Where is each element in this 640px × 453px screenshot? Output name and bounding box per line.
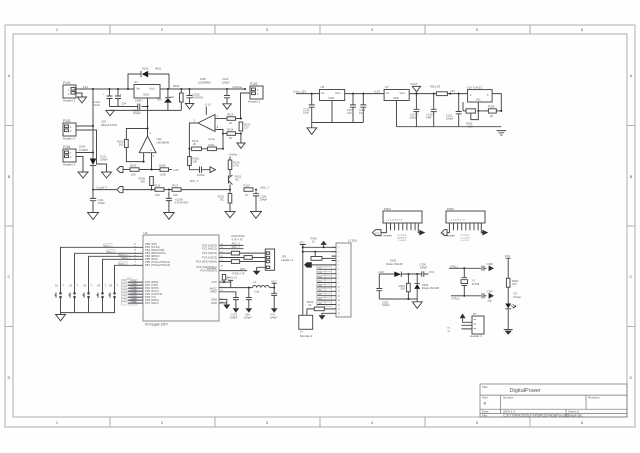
svg-text:-: - [211,117,212,121]
wire ADJ vertical [147,98,149,136]
svg-text:4.7K: 4.7K [233,163,239,167]
ground mcu filled [223,305,230,310]
wire plus input down [151,153,153,170]
diode D303 up [414,273,439,299]
svg-text:AREF: AREF [210,290,218,294]
wire backup bottom rail [379,298,417,300]
svg-text:100K: 100K [160,173,166,177]
button S4 [97,259,144,302]
svg-text:Header 2: Header 2 [248,100,261,104]
capacitor C123 from AREF [230,292,239,320]
button S5 [109,265,144,302]
svg-text:KEY4: KEY4 [122,258,128,260]
wire LCD row2 [302,251,336,253]
svg-text:47uF/50V: 47uF/50V [192,95,204,99]
header P301 pin wires [381,223,419,233]
svg-text:Vin: Vin [386,91,390,95]
LED D2 [505,304,516,309]
svg-text:VCC: VCC [211,280,217,284]
svg-text:104pF: 104pF [230,315,238,319]
svg-text:2 3 4 5 6: 2 3 4 5 6 [398,240,407,242]
LCD data stub wires [317,267,332,307]
net XTAL1 wire [449,265,464,269]
svg-text:GND: GND [393,96,399,100]
buttons ground bus [61,302,115,312]
svg-text:10K: 10K [155,193,160,197]
svg-text:10uF: 10uF [94,103,100,107]
wire rail VIN [80,88,134,90]
capacitor C111 bottom [87,191,105,220]
capacitor C305 on rail [420,262,428,276]
connector P103 top right [248,82,263,104]
wire U2B minus input [215,118,227,120]
regulator U5 [320,85,345,101]
header P302 pin wires [447,223,482,233]
wire PC2 to header [219,252,265,254]
svg-text:4.7K 4.7K: 4.7K 4.7K [232,237,244,241]
svg-text:Vout: Vout [335,91,340,95]
LCD16 connector [332,239,358,318]
svg-text:104pF: 104pF [270,315,278,319]
svg-text:+5VAna: +5VAna [232,85,242,89]
resistor R305 [231,260,239,264]
resistor R403 [307,300,332,315]
junction cutoff row [151,189,153,191]
resistor R116 [154,184,172,198]
svg-text:INT0: INT0 [132,287,138,289]
svg-text:Diode 1N4148: Diode 1N4148 [386,262,403,266]
svg-text:0.47uF/16V: 0.47uF/16V [175,200,189,204]
svg-text:LCD16: LCD16 [348,239,358,243]
svg-text:C306: C306 [487,262,494,266]
P302 pin labels [446,233,470,242]
wire main vertical x93 [92,89,94,153]
svg-text:10: 10 [308,303,311,307]
wire GND pins [219,299,227,303]
wire P103 pin2 [76,130,107,172]
svg-text:R119: R119 [244,184,251,188]
ground under R110 [237,134,246,149]
transistor Q1 [229,175,242,190]
resistor R118 vertical [188,148,200,170]
svg-text:R306: R306 [488,105,495,109]
net +5vPwr branch [228,153,240,175]
resistor R115 [192,139,208,151]
resistor R106 [130,164,160,177]
wire VCC pin [219,281,231,283]
svg-text:KEY5: KEY5 [119,264,125,266]
header JP2 [265,249,293,270]
port flag V+ row [117,167,123,173]
svg-text:431: 431 [476,98,481,102]
resistor R111 [208,143,223,151]
regulator U1 [134,80,160,103]
text D2 Power [514,292,522,299]
svg-text:2K2: 2K2 [119,142,124,146]
svg-text:B: B [8,174,11,179]
svg-text:10uF: 10uF [303,110,309,114]
ground LCD [319,315,326,320]
capacitor C221 [446,93,462,127]
wire P101 pin1 to rail [76,88,80,90]
svg-text:D: D [630,375,633,380]
ground LED [504,330,513,335]
button S1 [55,247,144,302]
TITLE-BLOCK [480,384,627,417]
svg-text:10K: 10K [400,287,405,291]
resistor R113 [227,113,241,126]
svg-text:R106: R106 [130,164,137,168]
svg-text:A: A [630,73,633,78]
svg-text:104pF: 104pF [446,116,454,120]
svg-text:123: 123 [244,125,249,129]
regulator U7 [384,85,409,101]
MCU U4 ATmega8 [143,231,219,327]
svg-text:KEY3: KEY3 [119,255,125,257]
svg-text:PMF: PMF [426,115,432,119]
connector P101 [63,81,76,103]
wire LCD row1 [302,246,336,248]
svg-text:KEY1: KEY1 [104,246,110,248]
svg-text:ADC_7: ADC_7 [232,245,241,249]
header P301 [383,207,422,223]
net label +5V [449,89,455,95]
svg-text:VCC: VCC [505,254,511,258]
wire P102 pin2 down [241,93,251,119]
svg-text:R102: R102 [173,84,180,88]
button S3 [83,256,144,302]
svg-text:L2: L2 [253,280,256,284]
svg-text:Cutoff 7~: Cutoff 7~ [97,185,109,189]
svg-text:100uF: 100uF [410,115,418,119]
svg-text:+12V: +12V [378,270,384,274]
svg-text:P301: P301 [384,207,391,211]
junction main vertical [92,88,94,90]
module 2 box [299,315,313,338]
wire LED to ground [507,309,509,329]
capacitor C101 [94,89,113,107]
svg-text:D: D [8,375,11,380]
capacitor C106 [185,88,203,109]
svg-text:PC1 (ADC1): PC1 (ADC1) [202,247,217,251]
power flag arrow down [410,82,421,95]
svg-text:R111: R111 [209,143,216,147]
resistor R110 vertical on P102 line [239,118,251,135]
svg-text:Header 2: Header 2 [63,163,76,167]
wire U2B output left down [189,123,198,149]
svg-text:104: 104 [122,102,127,106]
wire pot to R306 [478,110,488,112]
svg-text:GND: GND [211,297,217,301]
svg-text:104: 104 [347,111,352,115]
svg-text:U4: U4 [144,231,148,235]
port flag left P302 [442,230,448,236]
MCU pin numbers [134,243,137,304]
wire LCD pin16 ground [322,313,332,315]
svg-text:VOUT: VOUT [410,82,418,86]
text C112 [100,155,108,162]
text D302 label [386,258,403,266]
svg-text:+12V: +12V [173,168,179,172]
svg-text:Coil: Coil [255,289,260,293]
svg-text:GND: GND [211,301,217,305]
svg-text:U10 TL431C: U10 TL431C [467,85,483,89]
button S2 [69,253,144,302]
svg-text:XTAL2: XTAL2 [452,297,461,301]
svg-text:ADC_V: ADC_V [190,179,199,183]
text D100 1N4007 [79,145,89,152]
svg-text:GND: GND [143,93,149,97]
overline RESET [207,268,217,270]
svg-text:B: B [484,401,487,406]
svg-text:32768: 32768 [472,282,480,286]
resistor R202 [506,278,519,303]
svg-text:2K: 2K [490,114,493,118]
resistor R102 [170,84,184,110]
svg-text:104pF: 104pF [420,265,428,269]
svg-text:REGULATOR: REGULATOR [101,123,117,127]
wire backup left vertical [378,274,380,299]
wire P104 pin2 to ground [76,157,83,173]
svg-text:B: B [630,174,633,179]
svg-text:Number: Number [503,396,514,400]
wire PC6 reset [219,270,247,272]
svg-text:Header 4: Header 4 [282,258,294,262]
wire AVCC filter row [248,287,250,289]
IC U10 TL431 [467,85,493,102]
svg-text:S2: S2 [69,283,73,287]
power VCC LCD [299,241,306,248]
wire U1 pins [128,88,169,90]
svg-text:Comp: Comp [208,137,215,141]
wire U7 out rail [409,93,467,95]
svg-text:Vout: Vout [149,87,155,91]
P301 pin labels [383,233,407,242]
svg-text:—1 2 3 4 5 6 7 8: —1 2 3 4 5 6 7 8 [449,220,466,222]
svg-text:+12V: +12V [374,89,381,93]
power VCC LED [505,254,511,278]
key net labels [104,246,128,266]
svg-text:NC: NC [220,197,224,201]
ground big left [306,123,316,135]
svg-text:C:\EYT\AVR2003\LPJ\PSRK2004\Di: C:\EYT\AVR2003\LPJ\PSRK2004\DigPow.ddb [503,414,569,418]
svg-text:KEY2: KEY2 [107,252,113,254]
capacitor C110 [222,77,232,109]
svg-text:Drawn By:: Drawn By: [568,414,583,418]
svg-text:240: 240 [170,95,175,99]
svg-text:PC6 (RESET): PC6 (RESET) [200,269,217,273]
resistor R117 [172,184,230,198]
op-amp U2B pointing left [194,102,219,132]
wire R105 to minus input [126,148,143,162]
svg-text:R401 1K: R401 1K [227,276,237,280]
resistor R306 [488,105,502,119]
svg-text:2K: 2K [229,136,232,140]
wire P103 pin1 [76,125,93,127]
resistor R303 [231,251,239,255]
ground right small [101,172,112,178]
svg-text:Module 2: Module 2 [300,334,313,338]
svg-text:TXD: TXD [132,284,137,286]
svg-text:File:: File: [482,414,488,418]
resistor R401 pullup [222,275,237,284]
svg-text:R201 1R: R201 1R [430,85,440,89]
net XTAL2 wire [451,295,465,301]
wire P104 pin1 [76,152,93,154]
wire cap ground bus [110,106,133,108]
diode D301 [394,272,401,278]
svg-text:-: - [142,149,143,153]
ground buttons [55,313,66,321]
svg-text:LM258AM: LM258AM [198,80,211,84]
capacitor C210 [303,93,315,123]
resistor R304 [244,256,252,260]
svg-text:U7: U7 [385,85,389,89]
svg-text:U5: U5 [321,85,325,89]
svg-text:C: C [8,274,11,279]
wire header pin4 to ground [257,267,266,271]
capacitor C213 [347,93,356,123]
svg-text:Header 2: Header 2 [63,137,76,141]
capacitor C214 [359,93,366,123]
port flag left P301 [373,230,382,236]
svg-text:Conn_12V: Conn_12V [293,89,306,93]
op-amp U2A pointing up [139,131,156,158]
svg-text:104: 104 [359,111,364,115]
port arrow right P301 [419,230,425,236]
svg-text:1K: 1K [312,240,315,244]
svg-text:104pF: 104pF [197,173,205,177]
svg-text:P103: P103 [63,119,71,123]
svg-text:R108: R108 [159,164,166,168]
MCU right pin names PC [196,243,218,304]
resistor R108 [159,164,179,177]
svg-text:DigitalPower: DigitalPower [510,388,542,394]
svg-text:R117: R117 [172,184,179,188]
svg-text:P102: P102 [250,82,258,86]
capacitor C302 [376,289,390,308]
PD stub wires with labels [122,278,143,305]
svg-text:Diode 1N4148: Diode 1N4148 [422,286,440,290]
svg-text:LM317: LM317 [135,99,143,103]
capacitor C306 [464,262,493,271]
svg-text:VCC: VCC [440,233,445,235]
svg-text:0 1 2 0 1: 0 1 2 0 1 [461,240,470,242]
svg-text:C: C [630,274,633,279]
svg-text:P7: P7 [473,312,477,316]
capacitor C126 [270,288,278,320]
svg-text:XCK: XCK [132,293,137,295]
wire PC3 to header [219,257,265,259]
svg-text:Y2: Y2 [472,278,476,282]
svg-text:XTAL1: XTAL1 [450,265,459,269]
header P302 [446,207,485,223]
port arrow XTAL2 [489,293,494,299]
resistor R105 [117,140,128,148]
svg-text:VCC: VCC [429,270,435,274]
svg-text:104pF: 104pF [222,80,230,84]
svg-text:10K: 10K [140,179,145,183]
ground left small [78,172,89,178]
wire AVCC pin [230,282,232,288]
connector P104 [63,145,76,167]
wire PC1 net [219,248,244,250]
wire rail after U1 [160,88,245,90]
wire LCD vcc vertical [302,247,304,315]
svg-text:RXD: RXD [132,281,137,283]
header3 wires [448,325,472,333]
inductor L2 [219,280,274,293]
power arrow flag up [311,237,327,249]
svg-text:100: 100 [468,124,473,128]
svg-text:—1 2 3 4 5 6 7 8: —1 2 3 4 5 6 7 8 [386,220,403,222]
svg-text:104pF: 104pF [260,197,268,201]
svg-text:R114: R114 [227,128,234,132]
svg-text:104pF: 104pF [100,157,108,161]
wire U2B plus input [215,130,223,149]
svg-text:Vout: Vout [400,91,405,95]
svg-text:GND: GND [329,96,335,100]
svg-text:RST: RST [240,267,246,271]
svg-text:5V6: 5V6 [157,98,162,102]
wire plus row [123,169,130,171]
svg-text:1K: 1K [245,193,248,197]
svg-text:104pF: 104pF [133,111,141,115]
resistor R301 [399,273,411,299]
ground header4 [253,271,261,275]
potentiometer R302 [466,109,479,129]
wire cutoff from x93 [93,189,117,191]
power VCC mcu [224,276,234,282]
svg-text:S4: S4 [97,283,101,287]
power VCC filter [271,279,277,288]
svg-text:10K: 10K [193,159,198,163]
svg-text:R305 4.7K: R305 4.7K [233,272,246,276]
svg-text:10K: 10K [173,193,178,197]
svg-text:2K: 2K [193,142,196,146]
wire PC4 to header [219,261,265,263]
ground P101 [77,97,87,103]
svg-text:Header 3: Header 3 [470,334,482,338]
svg-text:Header 2: Header 2 [63,99,76,103]
svg-text:104pF: 104pF [98,201,106,205]
svg-text:ATmega8-16PI: ATmega8-16PI [145,323,168,327]
wire U2A feedback tap [126,129,147,140]
port arrow up header3 [460,314,472,323]
svg-text:PC2 (ADC2): PC2 (ADC2) [202,251,217,255]
text U2A LM258AM [157,137,170,144]
wire P101 pin2 to ground [76,93,82,97]
svg-text:+: + [211,128,213,132]
svg-text:S5: S5 [109,283,113,287]
junction feedback tap [147,128,149,130]
svg-text:PD7 (AIN1): PD7 (AIN1) [145,301,159,305]
svg-text:P104: P104 [63,145,71,149]
wire U5 out rail [345,93,384,95]
svg-text:D101: D101 [142,67,149,71]
resistor R122 below [218,190,236,218]
svg-text:-0.1V: -0.1V [205,102,211,106]
svg-text:PC4 (ADC4/SDA): PC4 (ADC4/SDA) [196,259,217,263]
capacitor C307 [464,289,493,302]
diode D100 [90,153,97,192]
svg-text:LM258AM: LM258AM [157,140,170,144]
svg-text:D302: D302 [390,258,397,262]
resistor R119 [244,184,254,198]
svg-text:Vin: Vin [321,91,325,95]
resistor R109 vertical [139,177,154,190]
svg-text:+5V: +5V [450,89,455,93]
